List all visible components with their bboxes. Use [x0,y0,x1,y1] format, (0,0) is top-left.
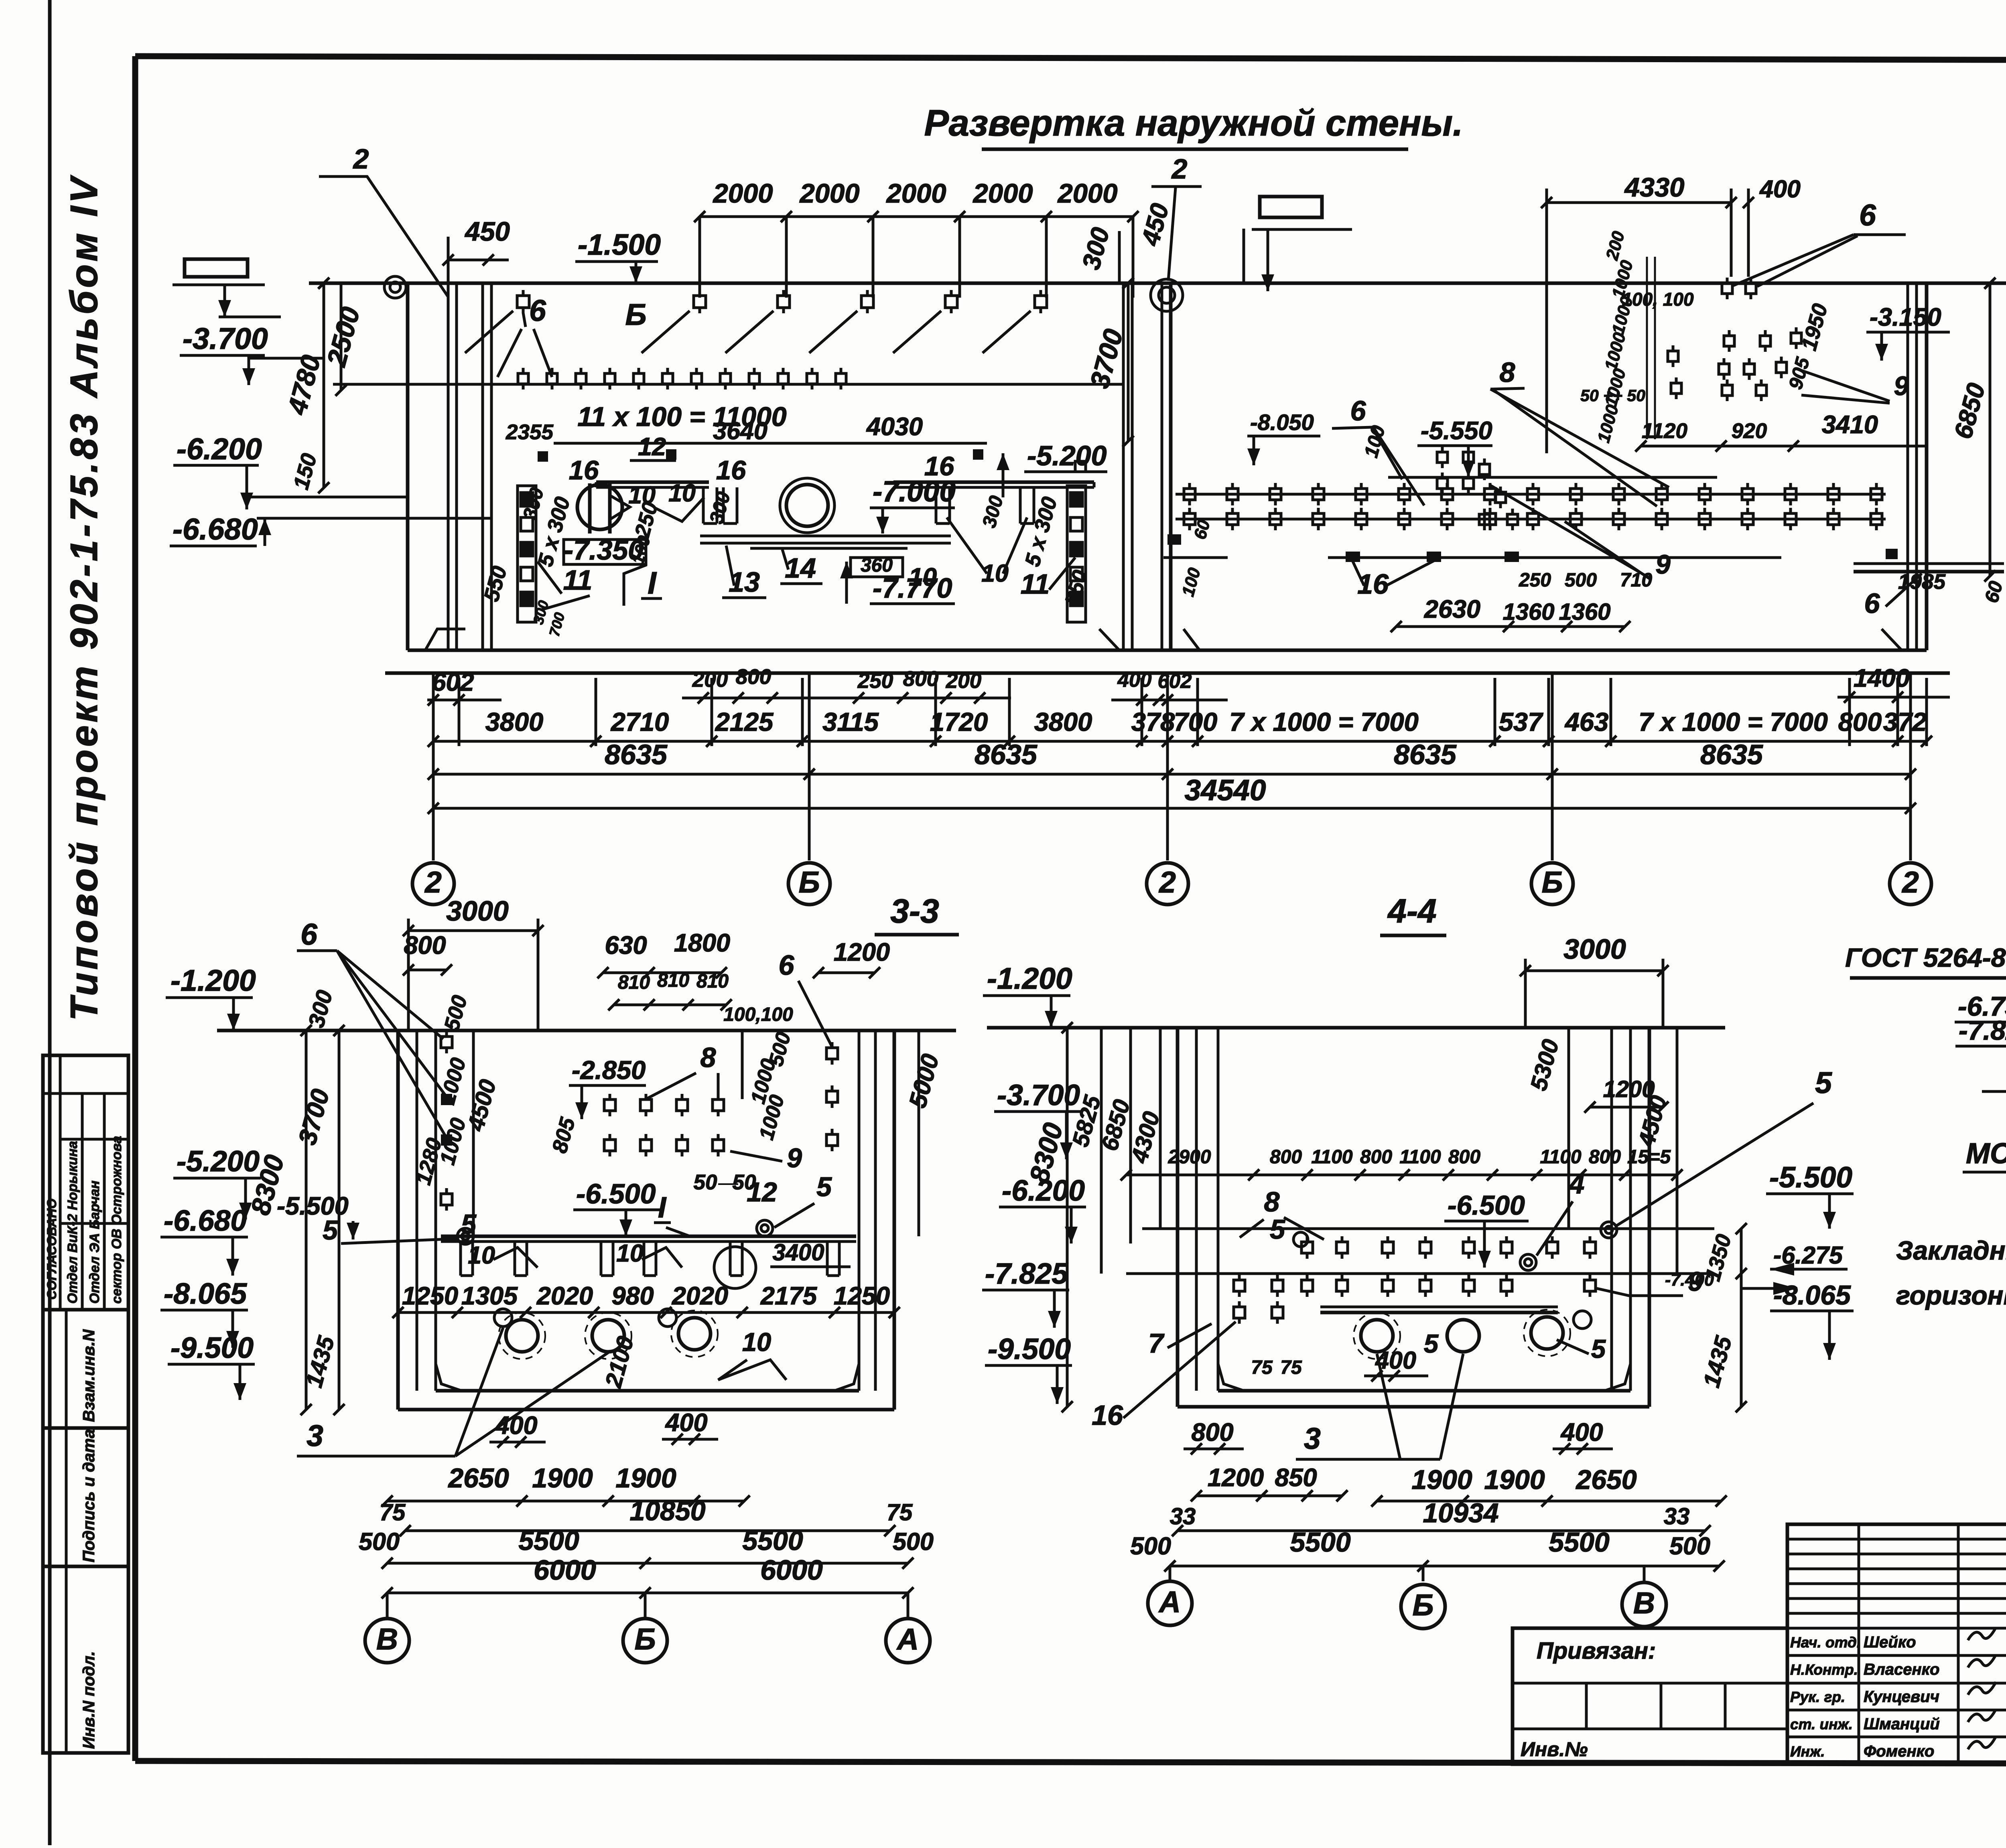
svg-text:16: 16 [924,451,954,481]
svg-text:16: 16 [1092,1400,1123,1431]
svg-text:1100: 1100 [1540,1146,1582,1168]
svg-text:1250: 1250 [402,1282,458,1310]
svg-text:3000: 3000 [446,895,509,927]
svg-text:6000: 6000 [760,1554,823,1586]
svg-text:10934: 10934 [1423,1498,1498,1528]
svg-text:А: А [1158,1585,1181,1619]
svg-text:-3.700: -3.700 [183,322,268,355]
svg-text:Б: Б [1541,865,1563,899]
svg-text:-7.825: -7.825 [985,1258,1068,1290]
svg-text:500: 500 [359,1528,400,1555]
svg-text:-9.500: -9.500 [171,1332,254,1364]
svg-text:Взам.инв.N: Взам.инв.N [79,1329,98,1422]
svg-text:50: 50 [694,1170,717,1194]
svg-text:10: 10 [468,1241,495,1269]
svg-text:6: 6 [529,294,546,327]
svg-text:372: 372 [1883,707,1927,736]
svg-text:6: 6 [300,917,318,951]
svg-text:-2.850: -2.850 [572,1055,646,1085]
svg-text:Б: Б [1412,1588,1433,1622]
svg-text:2900: 2900 [1168,1146,1211,1168]
svg-text:200: 200 [946,669,981,693]
svg-text:810: 810 [696,971,729,992]
svg-text:34540: 34540 [1185,774,1266,807]
svg-text:5: 5 [1270,1214,1285,1245]
svg-text:2125: 2125 [715,707,774,736]
svg-text:250: 250 [857,669,893,693]
svg-text:8: 8 [1500,357,1515,388]
svg-text:2: 2 [1158,865,1176,899]
svg-text:1250: 1250 [834,1282,890,1310]
svg-text:850: 850 [1275,1464,1317,1492]
svg-text:800: 800 [404,931,446,959]
svg-text:8635: 8635 [1700,739,1763,770]
svg-text:2175: 2175 [760,1282,817,1310]
svg-text:1120: 1120 [1642,419,1687,443]
svg-text:602: 602 [432,668,474,696]
svg-text:6: 6 [1350,395,1366,426]
svg-text:-3.150: -3.150 [1870,303,1941,331]
svg-text:33: 33 [1664,1503,1690,1530]
svg-text:800: 800 [1360,1146,1392,1168]
svg-text:75: 75 [1280,1357,1302,1378]
svg-text:200: 200 [692,668,728,692]
svg-text:В: В [376,1622,398,1656]
svg-text:4030: 4030 [866,413,923,441]
svg-text:920: 920 [1732,419,1767,443]
svg-text:710: 710 [1620,570,1652,591]
svg-text:810: 810 [657,970,689,991]
svg-text:2: 2 [353,143,369,174]
svg-text:50 ++ 50: 50 ++ 50 [1580,386,1645,405]
svg-text:2650: 2650 [1575,1465,1636,1495]
svg-text:Подпись и дата: Подпись и дата [79,1429,98,1562]
svg-text:3: 3 [1304,1422,1321,1455]
svg-text:1720: 1720 [930,707,988,736]
svg-text:6: 6 [1864,588,1880,619]
svg-text:5: 5 [323,1215,338,1246]
svg-text:2000: 2000 [799,179,859,209]
svg-text:1360: 1360 [1559,599,1610,625]
svg-text:3800: 3800 [485,707,544,736]
svg-text:800: 800 [1270,1146,1302,1168]
svg-text:500: 500 [1130,1532,1171,1560]
svg-text:8635: 8635 [605,739,668,770]
svg-text:Б: Б [798,865,820,899]
svg-text:400: 400 [494,1412,537,1440]
svg-text:3-3: 3-3 [890,892,939,930]
svg-text:МС40: МС40 [1966,1138,2006,1170]
svg-text:СОГЛАСОВАНО: СОГЛАСОВАНО [45,1199,59,1300]
svg-text:2000: 2000 [885,179,946,209]
svg-text:400: 400 [1560,1418,1603,1446]
svg-text:-1.200: -1.200 [987,962,1072,995]
svg-text:5: 5 [1424,1329,1439,1358]
svg-text:1900: 1900 [532,1463,593,1493]
svg-text:400: 400 [1117,668,1151,691]
svg-text:10: 10 [742,1327,771,1357]
svg-text:10: 10 [616,1239,644,1267]
svg-text:2020: 2020 [672,1282,728,1310]
svg-text:Закладные изделия (зачерненн: Закладные изделия (зачерненные) приварит… [1896,1235,2006,1265]
svg-text:А: А [896,1622,919,1656]
svg-text:500: 500 [1565,570,1597,591]
svg-text:75: 75 [380,1499,406,1525]
svg-text:-6.680: -6.680 [173,512,258,546]
svg-text:-8.065: -8.065 [164,1278,247,1310]
svg-text:ст. инж.: ст. инж. [1790,1716,1853,1732]
svg-text:700: 700 [1174,707,1217,736]
svg-text:4: 4 [1568,1168,1585,1199]
svg-text:11: 11 [1021,568,1050,600]
svg-text:9: 9 [1894,371,1909,401]
svg-text:5500: 5500 [742,1525,803,1556]
svg-text:800: 800 [1448,1146,1480,1168]
svg-text:1305: 1305 [461,1282,518,1310]
svg-text:5500: 5500 [1290,1527,1350,1558]
svg-text:10: 10 [909,563,937,591]
svg-text:-1.200: -1.200 [171,964,256,997]
svg-text:Власенко: Власенко [1864,1661,1939,1678]
svg-text:75: 75 [1251,1357,1273,1378]
svg-text:Отдел ВиК-2 Норыкина: Отдел ВиК-2 Норыкина [65,1141,80,1304]
svg-text:14: 14 [785,552,816,584]
svg-text:-8.065: -8.065 [1773,1280,1851,1310]
svg-text:Инж.: Инж. [1790,1743,1825,1760]
svg-text:11: 11 [563,564,593,596]
svg-text:-6.680: -6.680 [164,1205,247,1237]
svg-text:1800: 1800 [674,929,730,957]
svg-text:8: 8 [1264,1186,1280,1217]
svg-text:3640: 3640 [713,417,767,444]
svg-text:2650: 2650 [447,1463,509,1493]
svg-text:980: 980 [611,1282,654,1310]
svg-text:-5.550: -5.550 [1421,417,1492,445]
svg-text:2710: 2710 [610,707,669,736]
svg-text:3000: 3000 [1563,933,1626,965]
svg-text:4330: 4330 [1624,172,1684,203]
svg-text:9: 9 [787,1143,802,1173]
svg-text:Фоменко: Фоменко [1864,1743,1934,1760]
svg-text:463: 463 [1564,707,1608,736]
svg-text:2355: 2355 [506,420,554,444]
svg-text:400: 400 [1759,175,1801,203]
svg-text:-6.500: -6.500 [1448,1190,1525,1221]
svg-text:10: 10 [668,479,696,507]
svg-text:2: 2 [1171,153,1188,185]
svg-text:горизонтальной арматуре стен: горизонтальной арматуре стен. [1896,1280,2006,1310]
svg-text:2000: 2000 [972,179,1033,209]
svg-text:7 х 1000 = 7000: 7 х 1000 = 7000 [1639,707,1828,736]
svg-text:3115: 3115 [822,707,879,736]
svg-text:3400: 3400 [772,1239,824,1266]
svg-text:12: 12 [638,433,666,461]
svg-text:500: 500 [1669,1532,1710,1560]
svg-text:7: 7 [1148,1328,1165,1359]
svg-text:16: 16 [716,455,746,485]
svg-text:5500: 5500 [518,1525,579,1556]
svg-text:Шманций: Шманций [1864,1715,1940,1733]
svg-text:630: 630 [605,931,647,959]
svg-text:Привязан:: Привязан: [1537,1638,1656,1664]
svg-text:537: 537 [1499,707,1543,736]
svg-text:I: I [648,565,657,600]
svg-text:8635: 8635 [975,739,1038,770]
svg-text:378: 378 [1131,707,1175,736]
svg-text:Кунцевич: Кунцевич [1864,1688,1939,1706]
svg-text:Отдел ЭА Барчан: Отдел ЭА Барчан [87,1181,102,1304]
svg-text:1900: 1900 [1411,1465,1472,1495]
svg-text:2630: 2630 [1424,595,1480,623]
svg-text:1100: 1100 [1399,1146,1441,1168]
svg-text:5: 5 [816,1172,832,1202]
svg-text:Б: Б [634,1622,656,1656]
svg-text:ГОСТ 5264-80-ТЗ: ГОСТ 5264-80-ТЗ [1845,943,2006,972]
svg-text:2: 2 [1901,865,1919,899]
svg-text:5: 5 [1591,1334,1606,1363]
svg-text:Нач. отд.: Нач. отд. [1790,1634,1861,1651]
svg-text:-5.200: -5.200 [1027,440,1107,471]
svg-text:800: 800 [1838,707,1882,736]
svg-text:8: 8 [700,1042,716,1073]
svg-text:602: 602 [1157,669,1192,692]
svg-text:1100: 1100 [1311,1146,1353,1168]
svg-text:-1.500: -1.500 [578,229,661,261]
svg-text:сектор ОВ Острожнова: сектор ОВ Острожнова [109,1136,124,1304]
svg-text:Н.Контр.: Н.Контр. [1790,1661,1858,1678]
svg-text:100,100: 100,100 [723,1004,793,1025]
svg-text:6000: 6000 [534,1554,596,1586]
svg-text:-5.500: -5.500 [1769,1161,1852,1194]
svg-text:3800: 3800 [1034,707,1092,736]
svg-text:16: 16 [569,455,599,485]
svg-text:Инв.№: Инв.№ [1521,1738,1588,1761]
svg-text:800: 800 [1191,1418,1233,1446]
svg-text:1900: 1900 [1484,1465,1545,1495]
svg-text:-7.820: -7.820 [1959,1015,2006,1046]
svg-text:Типовой проект 902-1-75.83: Типовой проект 902-1-75.83 Альбом IV [63,175,106,1021]
svg-text:810: 810 [618,972,650,993]
svg-text:5: 5 [1815,1066,1832,1099]
svg-text:1200: 1200 [1208,1464,1264,1492]
svg-text:2020: 2020 [536,1282,593,1310]
svg-text:3: 3 [307,1419,323,1452]
svg-text:В: В [1633,1586,1655,1620]
svg-text:500: 500 [893,1528,934,1555]
svg-text:6: 6 [779,949,795,981]
svg-text:75: 75 [887,1499,913,1525]
svg-text:2: 2 [424,865,442,899]
svg-text:800: 800 [903,667,938,691]
svg-text:-8.050: -8.050 [1250,410,1314,435]
svg-text:-9.500: -9.500 [988,1333,1071,1365]
svg-text:250: 250 [1519,570,1551,591]
svg-text:15=5: 15=5 [1627,1146,1671,1168]
svg-text:Рук. гр.: Рук. гр. [1790,1689,1845,1705]
svg-text:Шейко: Шейко [1864,1633,1916,1651]
svg-text:3410: 3410 [1822,411,1878,439]
svg-text:450: 450 [464,217,510,247]
svg-text:-6.275: -6.275 [1773,1241,1843,1269]
svg-text:I: I [658,1191,667,1224]
svg-text:2000: 2000 [712,179,773,209]
svg-text:9: 9 [1655,550,1670,580]
svg-text:Б: Б [625,298,646,331]
svg-text:800: 800 [1589,1146,1621,1168]
svg-text:1400: 1400 [1854,664,1910,692]
svg-text:1200: 1200 [834,938,890,966]
svg-text:8635: 8635 [1394,739,1457,770]
svg-text:5500: 5500 [1549,1527,1609,1558]
svg-text:-5.200: -5.200 [177,1145,260,1178]
svg-text:Развертка наружной стены.: Развертка наружной стены. [924,103,1463,144]
svg-text:12: 12 [747,1177,777,1207]
svg-text:-6.200: -6.200 [177,432,262,466]
svg-text:6: 6 [1859,198,1876,232]
svg-text:10850: 10850 [629,1496,705,1526]
svg-text:2000: 2000 [1057,179,1117,209]
svg-text:Инв.N подл.: Инв.N подл. [79,1651,98,1749]
svg-text:4-4: 4-4 [1387,892,1436,930]
svg-text:800: 800 [736,665,771,689]
svg-text:-3.700: -3.700 [997,1079,1080,1112]
svg-text:-6.200: -6.200 [1002,1175,1085,1207]
svg-text:7 х 1000 = 7000: 7 х 1000 = 7000 [1229,707,1419,736]
svg-text:1360: 1360 [1502,599,1554,625]
svg-text:400: 400 [664,1409,707,1437]
svg-text:1900: 1900 [615,1463,676,1493]
svg-text:-6.500: -6.500 [576,1178,656,1209]
